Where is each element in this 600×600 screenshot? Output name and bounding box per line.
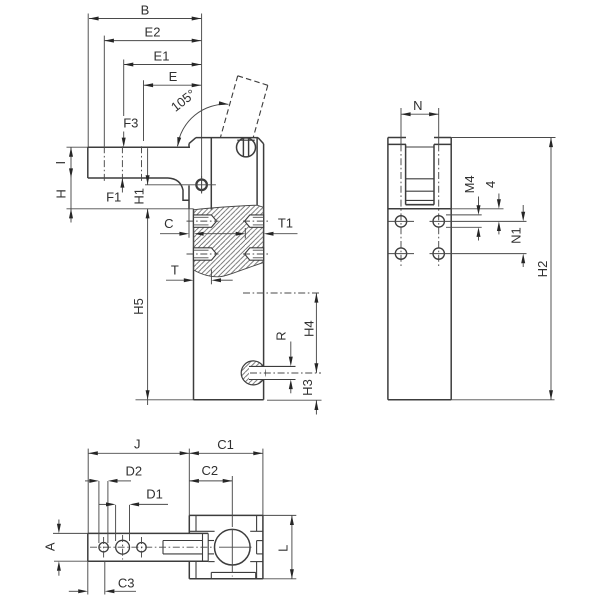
node lower body <box>193 209 195 400</box>
wire hole tangent extension lines <box>98 481 100 543</box>
node mounting holes front <box>400 108 402 144</box>
svg-text:H4: H4 <box>301 320 316 337</box>
node arm slot top view <box>163 540 203 542</box>
node spindle boss circle <box>215 529 251 565</box>
node E2 dimension <box>104 40 201 42</box>
svg-text:E: E <box>169 69 178 84</box>
node top view body <box>189 514 263 516</box>
node H5 dimension <box>147 209 149 400</box>
node bottom plate <box>211 571 255 573</box>
svg-text:H5: H5 <box>131 298 146 315</box>
svg-text:L: L <box>276 545 291 552</box>
node D2 dimension <box>85 480 89 482</box>
wire arm hole centerlines <box>103 146 105 181</box>
node arm holes top view <box>99 543 108 552</box>
wire mounting line <box>388 208 451 210</box>
node hatched mounting section <box>194 205 264 277</box>
svg-text:N: N <box>413 98 422 113</box>
node H2 dimension <box>451 137 555 139</box>
svg-text:C2: C2 <box>201 463 218 478</box>
node I dimension <box>67 146 88 148</box>
node C2 dimension <box>189 480 232 482</box>
node B dimension <box>89 18 201 20</box>
node C3 dimension <box>87 561 89 594</box>
svg-text:M4: M4 <box>462 175 477 193</box>
svg-text:R: R <box>273 331 288 340</box>
node H dimension <box>67 208 194 210</box>
node threaded hole right top <box>245 215 264 227</box>
wire dashed clamp arm open position <box>220 76 237 138</box>
svg-text:D1: D1 <box>146 487 163 502</box>
svg-text:C: C <box>164 216 173 231</box>
svg-text:I: I <box>53 161 68 165</box>
svg-text:E2: E2 <box>145 25 161 40</box>
svg-text:N1: N1 <box>508 227 523 244</box>
svg-text:H1: H1 <box>132 188 147 205</box>
node arm bracket <box>168 178 189 200</box>
svg-text:4: 4 <box>483 181 498 188</box>
wire spindle cross hole exit <box>257 540 263 542</box>
node clamp arm side view <box>88 146 190 148</box>
svg-text:F3: F3 <box>123 116 138 131</box>
screw head on body top <box>237 138 256 157</box>
wire inner wall lines <box>195 515 197 531</box>
node C1 dimension <box>189 452 263 454</box>
node D1 dimension <box>99 503 106 505</box>
svg-text:T: T <box>171 263 179 278</box>
node E1 dimension <box>124 64 202 66</box>
svg-text:B: B <box>141 3 150 18</box>
node H3 dimension <box>315 400 317 414</box>
node clevis slot <box>405 144 407 204</box>
node H1 dimension <box>147 148 149 185</box>
wire extension lines for B,E2,E1,E <box>87 14 89 148</box>
node J dimension <box>88 452 189 454</box>
svg-text:C3: C3 <box>118 575 135 590</box>
svg-text:T1: T1 <box>278 216 293 231</box>
svg-text:D2: D2 <box>125 463 142 478</box>
wire slot edges top view <box>189 530 214 532</box>
node 105 deg angle annotation <box>178 104 229 146</box>
node threaded hole left bottom <box>194 248 217 260</box>
node front view body <box>387 138 389 400</box>
svg-text:F1: F1 <box>106 190 121 205</box>
svg-text:H: H <box>54 189 69 198</box>
node threaded hole left top <box>194 215 217 227</box>
svg-text:H3: H3 <box>300 379 315 396</box>
svg-text:H2: H2 <box>535 261 550 278</box>
node clamp arm top view <box>88 533 208 561</box>
node body head outline <box>196 137 258 139</box>
node H4 dimension <box>315 293 317 373</box>
node threaded hole right bottom <box>245 248 264 260</box>
node T1 dimension <box>236 232 246 236</box>
svg-text:A: A <box>43 542 58 551</box>
node spindle cross hole <box>241 361 265 385</box>
wire ear lines <box>388 143 406 145</box>
node L dimension <box>263 514 296 516</box>
node E dimension <box>144 84 202 86</box>
svg-text:J: J <box>134 437 141 452</box>
node N dimension <box>401 113 439 115</box>
node A dimension <box>53 532 88 534</box>
node pivot pin <box>196 180 207 191</box>
svg-text:C1: C1 <box>217 437 234 452</box>
svg-text:E1: E1 <box>154 49 170 64</box>
